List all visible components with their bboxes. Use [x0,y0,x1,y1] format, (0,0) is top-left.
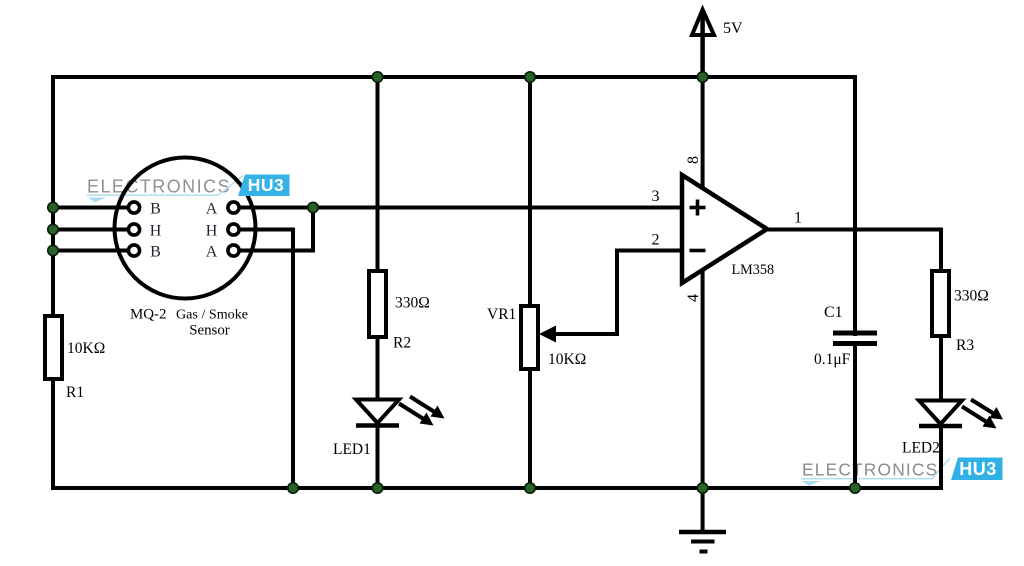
svg-text:MQ-2: MQ-2 [130,306,166,322]
svg-text:H: H [150,223,162,240]
wire VR1 wiper to op-amp pin2 [545,251,682,335]
svg-text:5V: 5V [723,20,743,37]
wire VR1 branch vertical [528,77,532,488]
svg-text:VR1: VR1 [487,306,516,323]
svg-text:HU3: HU3 [248,175,285,195]
LED2 [919,400,1003,429]
capacitor C1 [833,333,877,344]
potentiometer VR1 [521,306,538,369]
svg-text:3: 3 [652,188,660,205]
svg-text:8: 8 [685,156,702,164]
svg-text:HU3: HU3 [959,459,997,479]
wire sensor left pin B row3 [53,249,130,253]
wire ground stem [701,488,705,531]
wire left rail [51,75,55,490]
node top VR1 [525,72,535,82]
op-amp minus input mark [690,249,706,253]
node bottom C1 [850,483,860,493]
svg-text:1: 1 [794,210,802,227]
svg-text:Gas / Smoke: Gas / Smoke [176,306,248,322]
node bottom LED1 [372,483,382,493]
op-amp plus input mark [690,200,706,216]
wire 5V stem [700,13,705,77]
node left row1 [48,202,58,212]
wire top rail [53,75,855,79]
wire sensor pin A to op-amp pin3 [237,206,682,210]
node pin3 tie [308,202,318,212]
node bottom ground [697,483,707,493]
svg-text:Sensor: Sensor [189,323,230,339]
node left row2 [48,224,58,234]
svg-text:330Ω: 330Ω [954,288,989,305]
node top 5V [697,72,707,82]
svg-text:C1: C1 [824,304,843,321]
svg-text:R3: R3 [956,337,974,354]
LED1 [356,397,445,426]
node left row3 [48,245,58,255]
svg-text:0.1μF: 0.1μF [814,351,851,368]
svg-text:R2: R2 [393,335,411,352]
wire op-amp pin4 to ground rail [701,266,705,488]
node top R2 [372,72,382,82]
svg-text:LED2: LED2 [902,440,940,457]
svg-text:A: A [206,201,218,218]
resistor R3 [932,271,949,336]
svg-text:R1: R1 [66,384,84,401]
ground [679,532,726,552]
wire sensor left pin H row2 [53,228,130,232]
wire R3 LED2 branch vertical [939,228,943,491]
wire C1 branch vertical [853,75,857,488]
svg-text:330Ω: 330Ω [395,295,430,312]
HUB badge top-left [238,175,290,197]
svg-text:LED1: LED1 [333,441,371,458]
power symbol 5V arrow [692,10,714,36]
wire sensor right pin H down to ground rail [237,230,293,489]
svg-text:A: A [206,244,218,261]
svg-text:10KΩ: 10KΩ [67,340,105,357]
node bottom VR1 [525,483,535,493]
wire bottom rail [53,486,941,490]
wire op-amp output pin1 [765,228,941,232]
op-amp U1 LM358 [682,175,767,283]
sensor MQ-2 body circle [115,158,256,299]
svg-text:B: B [150,201,161,218]
watermark logo ELECTRONICS HUB (bottom-right) [801,458,950,486]
wire sensor left pin B row1 [53,206,130,210]
svg-text:B: B [150,244,161,261]
svg-text:4: 4 [685,294,702,302]
wire sensor right pin A row3 tie [237,208,313,251]
svg-text:H: H [206,223,218,240]
svg-text:10KΩ: 10KΩ [548,351,586,368]
resistor R1 [45,316,62,379]
HUB badge bottom-right [951,458,1003,481]
sensor pin letters [150,201,218,261]
wire op-amp pin8 supply [701,77,705,192]
sensor pin circles [128,202,239,256]
watermark logo ELECTRONICS HUB (top-left) [87,176,243,203]
node bottom H [288,483,298,493]
svg-text:LM358: LM358 [732,262,775,278]
svg-text:2: 2 [652,232,660,249]
resistor R2 [369,271,386,337]
wire R2 LED1 branch vertical [376,77,380,488]
svg-text:ELECTRONICS: ELECTRONICS [802,460,938,480]
